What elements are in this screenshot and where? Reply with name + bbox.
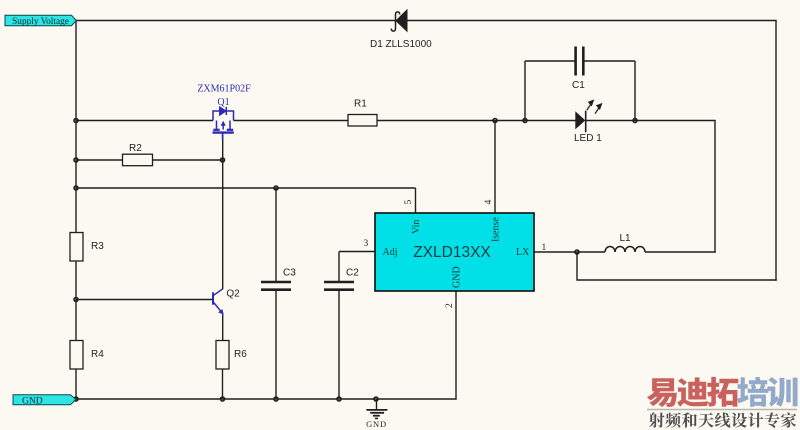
junction C2 / GND rail [337, 397, 341, 401]
junction R6 / GND rail [221, 397, 225, 401]
wire C3 top [275, 188, 277, 281]
supply voltage net flag [5, 15, 76, 25]
wire L1 to right vertical [645, 251, 716, 253]
svg-text:4: 4 [484, 200, 494, 205]
junction C3 / Vin row [274, 186, 278, 190]
wire C1 right drop [634, 61, 636, 121]
svg-text:Supply Voltage: Supply Voltage [12, 17, 69, 27]
wire Q2 base row [76, 299, 212, 301]
junction pin4 / LED row [493, 119, 497, 123]
junction left rail / R2 row [74, 158, 78, 162]
svg-text:R1: R1 [354, 99, 367, 110]
svg-text:2: 2 [445, 303, 455, 308]
resistor R6 [216, 341, 229, 370]
watermark logo text 易迪拓培训 and tagline [647, 378, 677, 407]
svg-text:ZXM61P02F: ZXM61P02F [197, 84, 251, 95]
wire Q2 emitter to R6 [222, 314, 224, 340]
svg-text:R3: R3 [91, 241, 104, 252]
wire pin 5 Vin [415, 188, 417, 213]
transistor Q2 (NPN, blue) [213, 289, 224, 315]
svg-text:Q1: Q1 [217, 97, 229, 108]
wire LX pin 1 to L1 [534, 251, 605, 253]
wire supply top-left to D1 anode-side [76, 20, 396, 22]
wire C2 top [338, 252, 340, 282]
wire Q1 to R1 [234, 120, 349, 122]
svg-text:LX: LX [516, 247, 530, 258]
svg-text:5: 5 [404, 200, 414, 205]
wire Adj pin 3 [339, 251, 375, 253]
svg-text:D1 ZLLS1000: D1 ZLLS1000 [370, 39, 432, 50]
resistor R4 [70, 341, 83, 370]
svg-text:C2: C2 [346, 268, 359, 279]
svg-text:L1: L1 [620, 233, 632, 244]
capacitor C1 [576, 47, 584, 76]
wire Q1 row left [76, 120, 213, 122]
wire D1 to top-right corner [407, 20, 777, 22]
wire right rail down [775, 21, 777, 281]
svg-text:LED 1: LED 1 [574, 133, 602, 144]
svg-text:GND: GND [452, 266, 463, 288]
resistor R1 [348, 115, 377, 127]
wire down to L1 right [714, 121, 716, 253]
wire pin 4 Isense [494, 121, 496, 214]
wire GND rail [76, 398, 457, 400]
wire C1 left drop [524, 61, 526, 121]
svg-text:C1: C1 [572, 80, 585, 91]
svg-text:3: 3 [364, 239, 369, 249]
wire R1 to LED anode [377, 120, 576, 122]
wire left rail lower segment [75, 369, 77, 400]
ground symbol near IC pin 2 [366, 399, 387, 418]
wire C1 right horizontal [583, 60, 635, 62]
junction ground symbol / GND rail [374, 397, 378, 401]
junction C1 right / LED row [633, 119, 637, 123]
svg-text:R6: R6 [234, 349, 247, 360]
junction left rail / Q2 base [74, 298, 78, 302]
svg-text:Vin: Vin [411, 220, 422, 234]
capacitor C2 [324, 282, 354, 290]
svg-text:1: 1 [542, 243, 547, 253]
svg-text:GND: GND [366, 419, 387, 429]
svg-text:Adj: Adj [383, 247, 398, 258]
wire left rail upper segment [75, 21, 77, 233]
junction left rail / GND rail [74, 397, 78, 401]
junction LX / L1 / loop [575, 250, 579, 254]
wire R2 to gate node [153, 159, 223, 161]
wire up to LX node [576, 252, 578, 281]
diode D1 ZLLS1000 (Schottky) [396, 10, 407, 31]
wire R2 row left [76, 159, 123, 161]
wire left rail between R3 and R4 [75, 261, 77, 341]
wire Vin row [76, 187, 416, 189]
junction C3 / GND rail [274, 397, 278, 401]
wire LED cathode to right vertical [586, 120, 716, 122]
resistor R2 [123, 154, 153, 166]
wire C2 bottom to GND rail [338, 291, 340, 400]
junction left rail / Q1 row [74, 119, 78, 123]
junction left rail / Vin row [74, 186, 78, 190]
LED LED1 [575, 111, 585, 129]
wire pin 2 GND [455, 291, 457, 399]
capacitor C3 [261, 282, 291, 290]
transistor Q1 ZXM61P02F (P-channel MOSFET, blue) [213, 107, 234, 140]
inductor L1 [605, 247, 645, 252]
wire C3 bottom to GND rail [275, 291, 277, 400]
svg-text:C3: C3 [283, 268, 296, 279]
svg-text:Isense: Isense [491, 216, 502, 242]
svg-text:R4: R4 [91, 349, 104, 360]
resistor R3 [70, 233, 83, 262]
svg-text:Q2: Q2 [226, 289, 240, 300]
svg-text:ZXLD13XX: ZXLD13XX [413, 244, 491, 261]
watermark underline [647, 409, 797, 411]
junction C1 left / LED row [523, 119, 527, 123]
wire C1 left horizontal [525, 60, 575, 62]
op-amp/IC U1 ZXLD13XX body [375, 213, 534, 291]
junction gate / R2 [221, 158, 225, 162]
wire Q1 gate down to Q2 collector [222, 133, 224, 289]
wire bottom of right loop [577, 279, 777, 281]
GND net flag [13, 395, 76, 405]
wire R6 to GND rail [222, 369, 224, 399]
svg-text:R2: R2 [129, 143, 142, 154]
svg-text:GND: GND [22, 396, 43, 406]
